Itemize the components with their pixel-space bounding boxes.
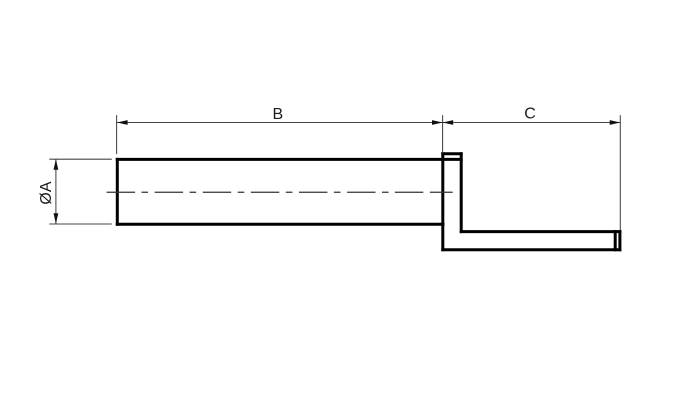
wire tab top edge: [443, 152, 461, 155]
arrow B right: [432, 120, 443, 125]
wire rod left edge: [116, 159, 119, 224]
centerline (dash-dot axis): [107, 191, 453, 193]
extension line right (C end): [619, 115, 621, 230]
dimension line B: [117, 122, 443, 124]
part outline: main rod: [117, 154, 620, 250]
dimension line C: [443, 122, 621, 124]
arrow OA up: [54, 159, 59, 170]
arrow B left: [117, 120, 128, 125]
wire rod bottom edge: [117, 223, 443, 226]
wire lower bar top edge: [461, 230, 620, 233]
wire rod top edge: [117, 158, 461, 161]
svg-text:ØA: ØA: [38, 181, 55, 204]
arrowheads: [54, 120, 621, 224]
dimension line OA: [55, 159, 57, 224]
extension line OA bottom: [49, 223, 112, 225]
wire lower bar end cap: [614, 232, 617, 250]
arrow C left: [443, 120, 454, 125]
extension line OA top: [49, 158, 112, 160]
wire Z-step left edge: [441, 154, 444, 250]
extension line left (B start): [116, 115, 118, 154]
svg-text:B: B: [272, 106, 283, 123]
extension line middle (B end / C start): [442, 115, 444, 153]
svg-text:C: C: [524, 106, 536, 123]
wire lower bar bottom edge: [443, 248, 620, 251]
arrow C right: [610, 120, 621, 125]
thin dimension geometry: [49, 115, 620, 230]
arrow OA down: [54, 213, 59, 224]
wire Z-step web right edge: [460, 154, 463, 232]
wire lower bar right edge: [618, 232, 621, 250]
